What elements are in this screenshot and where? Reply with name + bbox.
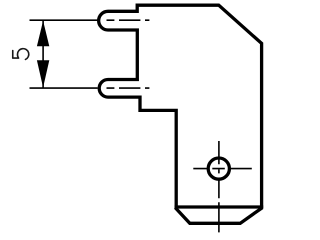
dimension line xyxy=(42,20,44,88)
flange chamfered bottom xyxy=(175,208,262,224)
flange top edge xyxy=(175,205,264,208)
part body outline with two flat tabs xyxy=(99,5,262,208)
hole horizontal centerline xyxy=(193,168,252,170)
hole vertical centerline xyxy=(218,141,220,232)
centerline tab 1 (also extension line) xyxy=(30,19,150,21)
hole xyxy=(208,158,229,179)
dimension text 5 (rotated) xyxy=(13,49,29,60)
arrowhead bottom xyxy=(37,60,49,87)
arrowhead top xyxy=(37,21,49,46)
centerline tab 2 (also extension line) xyxy=(30,87,150,89)
